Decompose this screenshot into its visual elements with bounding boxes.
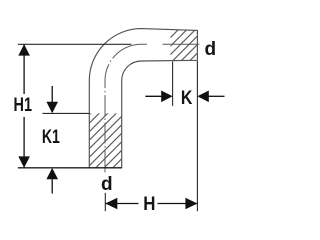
H1 arrow up bbox=[18, 44, 30, 55]
svg-text:K1: K1 bbox=[42, 127, 60, 148]
svg-text:K: K bbox=[181, 88, 193, 109]
bottom extension line (end face level) bbox=[18, 167, 122, 169]
K1 top extension line bbox=[42, 112, 89, 114]
K left extension line bbox=[172, 62, 174, 106]
svg-text:H: H bbox=[143, 194, 155, 215]
hatch bottom end (socket depth) bbox=[89, 113, 121, 167]
H1 dimension line bbox=[23, 44, 25, 94]
K arrow left (right side) bbox=[209, 95, 225, 97]
K1 arrow up (bottom) bbox=[51, 179, 53, 194]
H1 top extension line bbox=[18, 43, 132, 45]
K/H right extension line bbox=[196, 61, 198, 211]
centerline: horizontal + bend arc + vertical (dash-dot) bbox=[105, 44, 199, 172]
H arrow right bbox=[185, 198, 197, 210]
H dimension line bbox=[105, 203, 138, 205]
svg-text:H1: H1 bbox=[14, 95, 33, 116]
H left extension line bbox=[104, 193, 106, 211]
K1 arrow down (top) bbox=[51, 86, 53, 103]
H1 arrow down bbox=[18, 156, 30, 167]
H arrow left bbox=[105, 198, 117, 210]
pipe elbow outline bbox=[89, 29, 197, 168]
svg-text:d: d bbox=[101, 174, 113, 195]
svg-text:d: d bbox=[204, 39, 216, 60]
K arrow right (left side) bbox=[145, 95, 162, 97]
hatch right end (socket depth) bbox=[171, 30, 198, 61]
